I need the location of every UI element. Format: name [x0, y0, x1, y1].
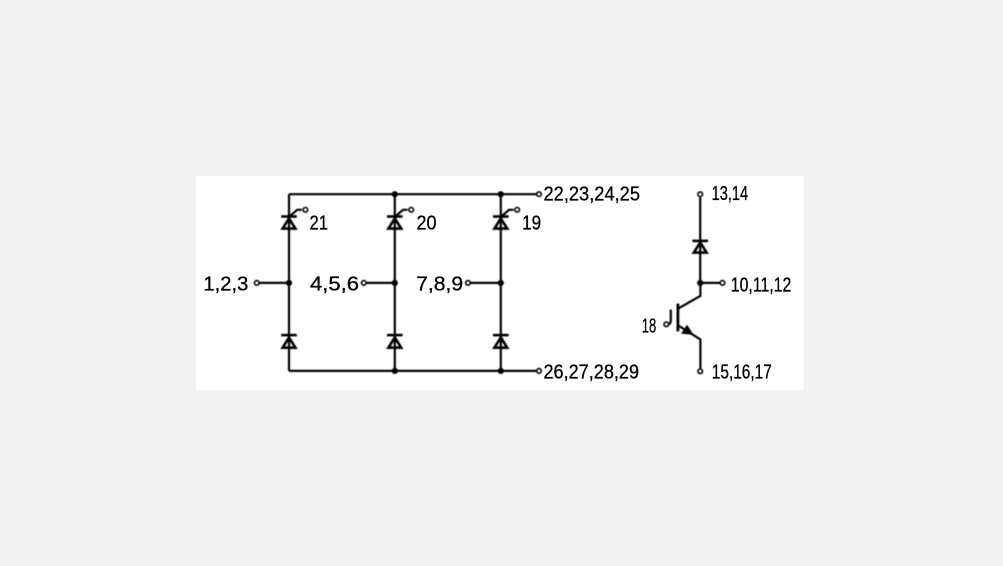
gate terminal circle of thyristor 21 [303, 208, 308, 213]
transistor 18 collector wire [678, 283, 700, 309]
terminal circle 1,2,3 [254, 281, 259, 286]
svg-text:26,27,28,29: 26,27,28,29 [544, 360, 640, 383]
svg-text:4,5,6: 4,5,6 [310, 272, 359, 295]
junction dot leg2/top rail [392, 191, 398, 197]
terminal circle 10,11,12 [720, 281, 725, 286]
wire AC stub phase 2 [367, 282, 395, 284]
junction dot leg3/bottom rail [498, 368, 504, 374]
thyristor 19 [493, 210, 514, 229]
junction dot leg2/bottom rail [392, 368, 398, 374]
junction dot leg2/mid [392, 280, 398, 286]
transistor 18 emitter arrow [682, 325, 693, 334]
svg-text:18: 18 [642, 315, 657, 338]
diode D3 (leg 3 bottom) [493, 335, 509, 348]
svg-text:22,23,24,25: 22,23,24,25 [544, 182, 641, 205]
top rail wire (DC+ bus to terminals 22,23,24,25) [289, 193, 536, 195]
wire AC stub phase 1 [260, 282, 289, 284]
diode D2 (leg 2 bottom) [387, 335, 403, 348]
wire from terminal 13,14 down to diode D4 and node [699, 197, 701, 283]
svg-text:21: 21 [310, 212, 329, 235]
svg-text:20: 20 [417, 212, 437, 235]
gate terminal circle of transistor 18 [664, 322, 669, 327]
thyristor 21 [281, 210, 302, 229]
transistor 18 base bar [677, 304, 680, 332]
junction dot leg1/mid [286, 280, 292, 286]
terminal circle 4,5,6 [362, 281, 367, 286]
terminal circle 22,23,24,25 [537, 192, 542, 197]
svg-text:10,11,12: 10,11,12 [731, 273, 792, 296]
diode D1 (leg 1 bottom) [281, 335, 297, 348]
bottom rail wire (DC- bus to terminals 26,27,28,29) [289, 370, 536, 372]
transistor 18 gate bar and lead [668, 310, 670, 325]
terminal circle 15,16,17 [698, 369, 703, 374]
svg-text:7,8,9: 7,8,9 [416, 272, 463, 295]
svg-text:1,2,3: 1,2,3 [203, 272, 248, 295]
junction dot leg3/mid [498, 280, 504, 286]
gate terminal circle of thyristor 20 [409, 208, 414, 213]
terminal circle 26,27,28,29 [537, 369, 542, 374]
junction dot leg3/top rail [498, 191, 504, 197]
junction dot node 10,11,12 [697, 280, 703, 286]
wire leg 1 vertical [288, 194, 290, 371]
diode D4 (right branch) [692, 241, 708, 253]
terminal circle 7,8,9 [466, 281, 471, 286]
svg-text:19: 19 [522, 212, 541, 235]
svg-text:15,16,17: 15,16,17 [712, 360, 772, 383]
wire leg 2 vertical [394, 194, 396, 371]
wire leg 3 vertical [500, 194, 502, 371]
wire AC stub phase 3 [471, 282, 501, 284]
transistor 18 emitter wire [678, 326, 700, 369]
svg-text:13,14: 13,14 [712, 182, 749, 205]
thyristor 20 [387, 210, 408, 229]
gate terminal circle of thyristor 19 [515, 208, 520, 213]
wire node to terminal 10,11,12 [700, 282, 720, 284]
terminal circle 13,14 [698, 192, 703, 197]
